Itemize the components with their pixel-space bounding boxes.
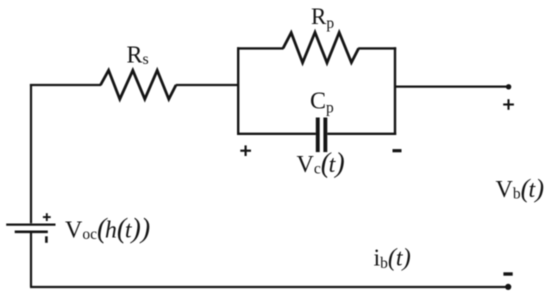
minus sign V_c right [393,149,402,152]
parallel-block box right edge [394,47,396,135]
plus sign output terminal [503,99,514,110]
parallel-block box top edge (right of Rp) [358,47,396,49]
battery V_oc short plate [15,230,48,233]
battery V_oc long plate [6,223,55,225]
wire Rs to box [176,84,239,86]
battery plus sign [43,213,51,221]
svg-text:Rp: Rp [311,4,334,32]
wire left vertical (battery to bottom corner) [30,233,32,287]
parallel-block box left edge [237,47,239,135]
resistor R_s [101,70,177,99]
resistor R_p [283,32,359,62]
wire top horizontal (corner to Rs) [30,84,101,86]
minus sign output terminal [503,272,512,275]
node + terminal dot (top right) [506,84,511,89]
svg-text:Vc(t): Vc(t) [297,148,345,179]
svg-text:Cp: Cp [310,88,334,116]
capacitor C_p right plate [323,118,327,153]
svg-text:Voc(h(t)): Voc(h(t)) [65,213,150,244]
svg-text:Vb(t): Vb(t) [496,173,545,203]
parallel-block box bottom edge (right of Cp) [327,133,396,135]
wire left vertical (top corner to battery) [30,84,32,223]
svg-text:Rs: Rs [127,42,149,68]
node - terminal dot (bottom right) [505,284,511,290]
svg-text:ib(t): ib(t) [374,244,411,272]
capacitor C_p left plate [316,118,320,153]
parallel-block box top edge (left of Rp) [237,47,284,49]
wire box to right terminal [394,85,509,87]
wire bottom horizontal [30,286,508,288]
parallel-block box bottom edge (left of Cp) [237,133,316,135]
battery minus tick [45,236,48,243]
plus sign V_c left [240,145,251,156]
